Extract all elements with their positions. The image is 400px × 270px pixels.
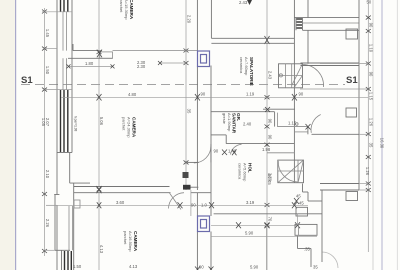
GR SANITAR fixtures / steps <box>211 134 227 136</box>
svg-text:1.80: 1.80 <box>85 61 94 66</box>
svg-text:90: 90 <box>268 135 273 140</box>
dimension to right chain <box>320 63 368 65</box>
svg-text:45: 45 <box>267 180 272 185</box>
blue door symbol lower <box>198 216 210 232</box>
hatched pier middle <box>61 90 68 152</box>
window mullions mid <box>62 58 64 90</box>
svg-text:gresie: gresie <box>222 113 227 125</box>
svg-text:3.19: 3.19 <box>246 200 255 205</box>
svg-text:.35: .35 <box>304 247 310 252</box>
svg-text:35: 35 <box>187 109 192 114</box>
arrows at corner <box>97 50 102 58</box>
svg-text:90: 90 <box>214 149 219 154</box>
svg-text:90: 90 <box>268 119 273 124</box>
svg-text:2.30: 2.30 <box>137 64 146 69</box>
svg-text:90: 90 <box>369 23 374 28</box>
window box on right wall <box>346 29 358 39</box>
dimension segment right of it <box>113 50 198 52</box>
svg-text:45: 45 <box>296 194 301 199</box>
door arc GR SANITAR <box>194 146 211 163</box>
window box 2 <box>346 108 357 117</box>
blue door symbol upper <box>198 51 210 67</box>
CAMERA bottom-left <box>123 231 138 252</box>
interior vertical chain x=186 <box>184 0 192 190</box>
svg-text:ceramica: ceramica <box>238 163 243 180</box>
wall step left <box>54 195 56 251</box>
svg-text:2.20: 2.20 <box>187 15 192 24</box>
dim tick at step <box>46 204 57 206</box>
svg-text:1.40: 1.40 <box>228 149 237 154</box>
window in that wall <box>100 52 113 58</box>
1.15 dimension <box>277 126 308 128</box>
CAMERA top-left <box>119 0 134 20</box>
HOL top wall with door <box>277 126 308 128</box>
svg-text:35: 35 <box>313 265 318 270</box>
window box 3 <box>346 192 358 201</box>
steps below box <box>302 184 304 193</box>
svg-text:1.45: 1.45 <box>45 29 50 38</box>
CAMERA middle-left <box>122 117 137 138</box>
svg-text:70: 70 <box>268 217 273 222</box>
svg-text:1.98: 1.98 <box>262 147 271 152</box>
svg-text:1.05: 1.05 <box>41 118 46 127</box>
svg-text:parchet: parchet <box>122 117 127 131</box>
svg-text:S1: S1 <box>21 75 33 86</box>
svg-text:1.50: 1.50 <box>45 66 50 75</box>
dashed section line S1 <box>21 84 345 86</box>
svg-text:90: 90 <box>201 92 206 97</box>
hatched pier <box>297 19 303 28</box>
svg-text:5.06: 5.06 <box>99 117 104 126</box>
dimension 1.80 below <box>69 65 113 67</box>
right vertical chain x=368 <box>365 0 374 252</box>
door swing into bottom room <box>170 193 182 210</box>
svg-text:2.26: 2.26 <box>45 219 50 228</box>
svg-text:1.15: 1.15 <box>288 121 297 126</box>
svg-text:3.60: 3.60 <box>116 200 125 205</box>
svg-text:1.15: 1.15 <box>369 92 374 101</box>
svg-text:ceramica: ceramica <box>239 57 244 74</box>
HOL <box>238 163 253 182</box>
window band to right wall <box>294 17 359 19</box>
svg-text:50: 50 <box>367 0 372 5</box>
left margin strip <box>0 0 15 270</box>
svg-text:1.0: 1.0 <box>201 203 207 208</box>
hatched pier top <box>61 0 68 12</box>
hatched pier bottom <box>65 251 72 270</box>
svg-text:2.43: 2.43 <box>268 71 273 80</box>
window mullions top <box>62 12 64 51</box>
svg-text:1.10: 1.10 <box>369 44 374 53</box>
landing edge line <box>267 152 294 154</box>
svg-text:2.43: 2.43 <box>239 0 248 5</box>
interior vertical chain x=267 <box>265 0 273 270</box>
window mullions bottom <box>68 206 70 250</box>
svg-text:5.90: 5.90 <box>250 265 259 270</box>
svg-text:90: 90 <box>369 72 374 77</box>
svg-text:2.40: 2.40 <box>243 122 252 127</box>
svg-text:1.50: 1.50 <box>73 264 82 269</box>
interior vertical chain x=99 <box>97 0 105 270</box>
svg-text:90: 90 <box>267 174 272 179</box>
left vertical chain <box>41 8 50 256</box>
svg-text:1.26: 1.26 <box>369 118 374 127</box>
svg-text:16.30: 16.30 <box>380 138 385 149</box>
right page lines <box>372 0 374 270</box>
svg-text:parchet: parchet <box>119 0 124 13</box>
svg-text:4.13: 4.13 <box>99 245 104 254</box>
corridor top wall from stairs to right wall <box>301 62 360 64</box>
GR SANITAR <box>222 113 241 134</box>
svg-text:35: 35 <box>369 143 374 148</box>
svg-text:90: 90 <box>191 203 196 208</box>
bottom-middle verticals <box>266 225 268 270</box>
left page border line <box>15 0 17 270</box>
svg-text:2.10: 2.10 <box>45 170 50 179</box>
svg-text:4.13: 4.13 <box>129 264 138 269</box>
svg-text:parchet: parchet <box>123 231 128 245</box>
svg-text:1.26: 1.26 <box>365 167 370 176</box>
SPALATORIE <box>239 57 254 86</box>
svg-text:S1: S1 <box>346 75 358 86</box>
svg-text:5.90: 5.90 <box>245 231 254 236</box>
svg-text:1.19: 1.19 <box>246 92 255 97</box>
svg-text:45: 45 <box>299 201 304 206</box>
svg-text:4.80: 4.80 <box>128 92 137 97</box>
svg-text:90: 90 <box>299 92 304 97</box>
svg-text:h par=1.98: h par=1.98 <box>74 116 78 132</box>
wall faces <box>56 0 58 195</box>
